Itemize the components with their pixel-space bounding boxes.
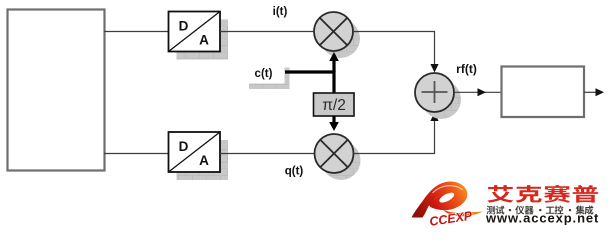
- svg-text:q(t): q(t): [285, 166, 304, 178]
- thick wire: carrier up to top mixer: [332, 61, 335, 73]
- summer (adder): [415, 73, 454, 112]
- D/A converter (top): [169, 12, 221, 52]
- svg-text:c(t): c(t): [255, 68, 273, 80]
- D/A converter (bottom): [169, 132, 221, 172]
- wire: top DAC to top mixer: [220, 31, 315, 33]
- mixer (bottom multiplier): [315, 134, 354, 173]
- wire: summer to output block: [454, 91, 501, 93]
- arrow: into summer top: [430, 64, 438, 73]
- arrow: carrier into top mixer: [329, 52, 339, 61]
- arrow: π/2 output into bottom mixer: [329, 122, 339, 131]
- D/A converter (bottom) shadow: [177, 140, 229, 180]
- arrow: into summer bottom: [430, 113, 438, 122]
- D/A converter (top) shadow: [177, 20, 229, 60]
- svg-text:A: A: [199, 153, 209, 168]
- svg-text:π/2: π/2: [322, 97, 346, 114]
- wire: bottom mixer to summer corner: [354, 121, 435, 154]
- logo: Chinese title and caption (vector glyphs): [487, 185, 598, 203]
- thick wire: carrier c(t) feed: [285, 72, 334, 93]
- svg-text:D: D: [179, 139, 189, 154]
- svg-text:D: D: [179, 19, 189, 34]
- mixer (top multiplier) shadow: [321, 19, 360, 58]
- block: baseband source rectangle: [8, 10, 105, 171]
- carrier wire shadow (L-shape bricks): [249, 68, 290, 90]
- svg-text:www.accexp.net: www.accexp.net: [485, 211, 599, 226]
- svg-text:i(t): i(t): [273, 6, 288, 18]
- arrow: on wire into output block: [478, 88, 487, 96]
- wire: source to top DAC: [104, 31, 169, 33]
- wire: top mixer to summer corner: [353, 32, 435, 65]
- logo: A tail swoosh: [443, 210, 483, 216]
- logo: A counter (white hole): [438, 191, 456, 205]
- mixer (bottom multiplier) shadow: [322, 141, 361, 180]
- phase shifter π/2: [314, 93, 355, 116]
- svg-text:rf(t): rf(t): [456, 62, 477, 76]
- svg-text:CCEXP: CCEXP: [428, 209, 473, 229]
- mixer (top multiplier): [314, 12, 353, 51]
- thick wire: π/2 to bottom mixer: [332, 116, 335, 123]
- wire: bottom DAC to bottom mixer: [220, 153, 315, 155]
- summer shadow: [422, 80, 461, 119]
- block: output stage: [502, 67, 585, 118]
- logo: accexp red A swoosh: [412, 181, 484, 228]
- wire: source to bottom DAC: [104, 153, 169, 155]
- logo: A gloss highlight: [433, 186, 463, 193]
- wire: RF output: [584, 91, 596, 93]
- svg-text:A: A: [199, 33, 209, 48]
- arrow: RF output: [596, 88, 605, 96]
